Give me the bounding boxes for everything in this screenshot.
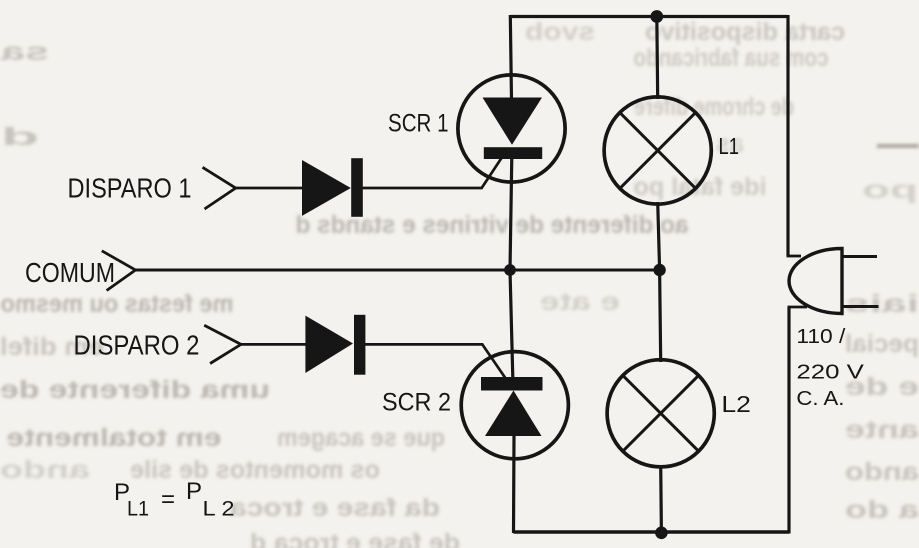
node COMUM junction dot left (504, 264, 516, 276)
wire SCR2 gate horizontal (364, 343, 483, 346)
input terminal DISPARO 2 (chevron) (204, 325, 241, 363)
svg-text:de fase e troca d: de fase e troca d (250, 529, 460, 548)
svg-text:d: d (1, 123, 39, 151)
wire top rail (510, 15, 788, 18)
svg-text:C. A.: C. A. (796, 388, 844, 410)
svg-text:ando: ando (0, 456, 90, 484)
wire SCR1 gate horizontal (362, 187, 483, 190)
input terminal COMUM (chevron) (102, 251, 136, 291)
svg-text:L2: L2 (721, 391, 751, 417)
wire DISPARO 1 input (236, 187, 303, 190)
svg-text:=: = (161, 486, 175, 513)
svg-text:DISPARO 2: DISPARO 2 (74, 330, 200, 361)
SCR2 body circle (461, 352, 568, 459)
svg-text:uma diferente de: uma diferente de (0, 376, 270, 404)
svg-text:os momentos de sile: os momentos de sile (130, 456, 380, 484)
lamp L1 circle (604, 97, 711, 204)
svg-text:L1: L1 (719, 133, 740, 159)
wire SCR2 gate diagonal (482, 344, 505, 377)
node COMUM junction dot right (653, 264, 665, 276)
node top junction dot (650, 10, 663, 23)
wire L2 top branch (660, 270, 661, 362)
lamp L2 circle (607, 360, 714, 467)
wire DISPARO 2 input (241, 343, 306, 346)
wire COMUM (136, 269, 660, 272)
SCR1 anode triangle (483, 98, 543, 145)
svg-text:sa: sa (0, 38, 49, 66)
svg-text:a do: a do (845, 496, 919, 524)
svg-text:SCR 1: SCR 1 (388, 110, 449, 138)
diode D1 cathode bar (351, 158, 363, 217)
svg-text:SCR 2: SCR 2 (382, 389, 451, 417)
input terminal DISPARO 1 (chevron) (203, 167, 236, 209)
svg-text:P: P (186, 478, 202, 505)
SCR1 body circle (458, 75, 565, 182)
SCR2 cathode bar (481, 377, 543, 391)
plug prong bottom (842, 305, 879, 308)
svg-text:em totalmente: em totalmente (6, 424, 221, 452)
svg-text:pecial: pecial (845, 330, 919, 358)
label formula P L1 = P L2 (114, 478, 235, 521)
svg-text:L 2: L 2 (203, 498, 235, 521)
svg-text:com sua fabricando: com sua fabricando (634, 44, 829, 72)
svg-text:L1: L1 (127, 498, 149, 521)
svg-text:svob: svob (525, 18, 595, 46)
wire SCR1 cathode to COMUM node (510, 157, 512, 270)
wire SCR1 anode branch (510, 15, 511, 100)
svg-text:que se acagem: que se acagem (277, 424, 445, 452)
lamp L1 cross (620, 113, 696, 189)
SCR1 cathode bar (484, 147, 542, 159)
plug P1 (AC plug body) (789, 249, 842, 314)
wire plug top stub (787, 255, 802, 258)
diode D1 triangle (302, 160, 351, 216)
svg-text:carta dispositivo: carta dispositivo (645, 18, 845, 46)
svg-text:iais: iais (845, 290, 919, 318)
svg-text:e ate: e ate (540, 288, 620, 316)
wire right vertical (bottom, plug to bottom rail) (787, 307, 790, 534)
diode D2 triangle (305, 316, 353, 373)
diode D2 cathode bar (354, 315, 365, 375)
node bottom junction dot (655, 527, 668, 540)
svg-text:220 V: 220 V (796, 362, 864, 384)
svg-text:ante: ante (845, 416, 919, 444)
wire L1 bottom branch (658, 202, 660, 270)
wire COMUM to SCR2 cathode (510, 270, 513, 378)
wire plug bottom stub (788, 306, 808, 309)
plug prong top (842, 255, 877, 258)
label 110/220V C.A. (796, 326, 864, 410)
wire L2 bottom branch (659, 465, 663, 533)
svg-text:DISPARO 1: DISPARO 1 (68, 173, 192, 204)
wire SCR2 anode to bottom rail (512, 436, 516, 533)
wire SCR1 gate diagonal (482, 158, 502, 188)
SCR2 anode triangle (485, 391, 542, 437)
svg-text:da fase e troca: da fase e troca (229, 494, 440, 522)
wire L1 top branch (655, 15, 659, 99)
wire bottom rail (514, 530, 790, 533)
svg-text:po: po (862, 176, 918, 204)
svg-text:110 /: 110 / (796, 326, 846, 348)
svg-text:ide fatal po: ide fatal po (634, 173, 767, 201)
svg-text:me festas ou mesmo: me festas ou mesmo (1, 290, 234, 318)
wire right vertical (top, to plug) (786, 15, 789, 256)
svg-text:COMUM: COMUM (25, 257, 115, 288)
svg-text:ando: ando (845, 458, 919, 486)
lamp L2 cross (623, 375, 699, 451)
